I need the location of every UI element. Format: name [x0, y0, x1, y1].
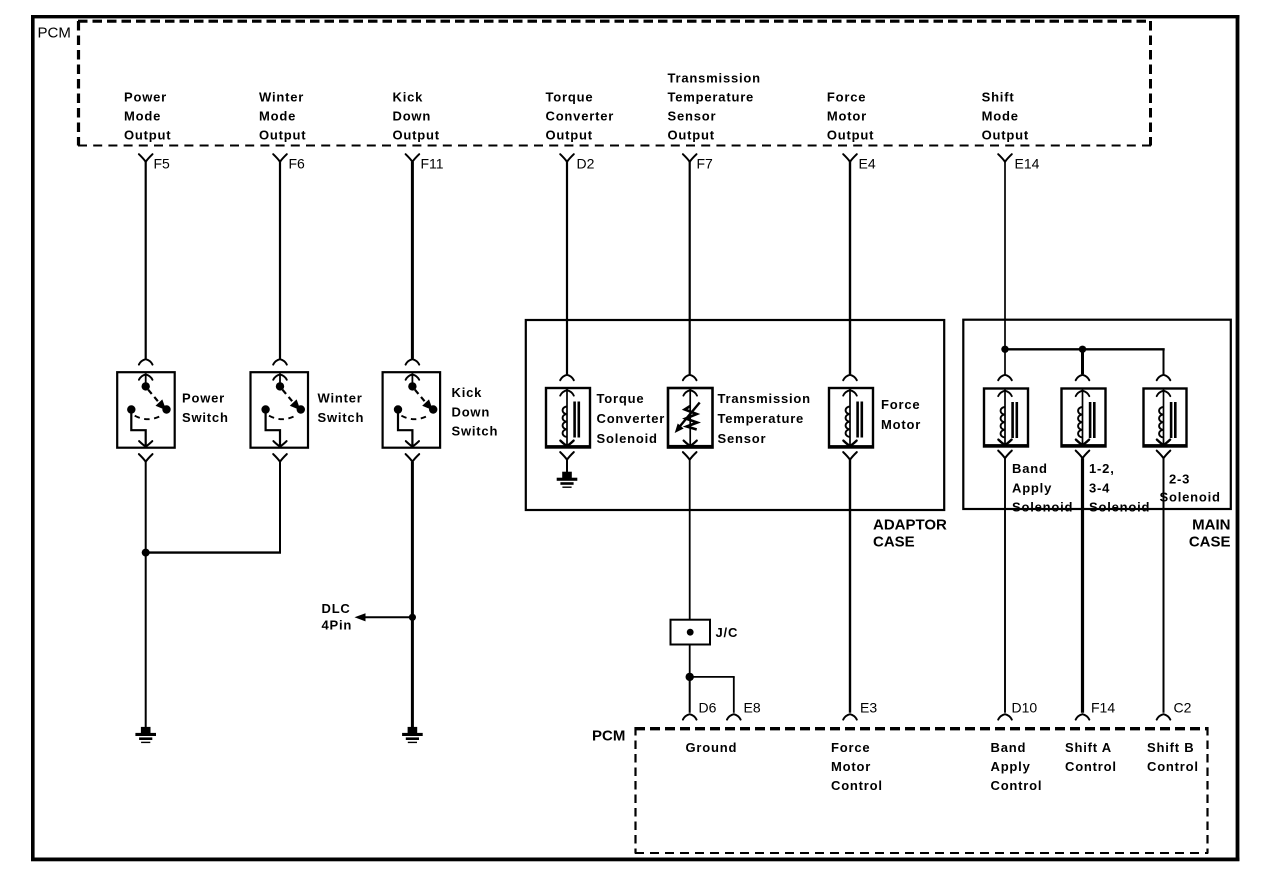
wire Kick Down Switch to ground: [411, 462, 414, 728]
svg-text:Output: Output: [827, 128, 874, 143]
label Band Apply Solenoid: [1012, 461, 1073, 515]
svg-text:4Pin: 4Pin: [322, 618, 353, 633]
pin E4 connector: [843, 154, 876, 171]
svg-text:MAIN: MAIN: [1192, 517, 1230, 534]
wire F11 to Kick Down Switch: [406, 162, 420, 365]
svg-text:Output: Output: [259, 128, 306, 143]
PCM control connector box (dashed, bottom): [635, 727, 1208, 854]
connector below 2-3 Solenoid: [1157, 451, 1171, 459]
svg-text:C2: C2: [1174, 700, 1192, 716]
junction dot DLC tap: [409, 614, 416, 621]
svg-text:E4: E4: [859, 156, 876, 172]
svg-text:Switch: Switch: [318, 410, 365, 425]
junction dot ground splice: [686, 673, 694, 681]
pin F14 label: [1091, 700, 1115, 716]
svg-text:Kick: Kick: [452, 385, 483, 400]
svg-text:ADAPTOR: ADAPTOR: [873, 517, 947, 534]
svg-text:Shift A: Shift A: [1065, 740, 1112, 755]
svg-text:E3: E3: [860, 700, 877, 716]
svg-text:Sensor: Sensor: [668, 109, 717, 124]
svg-text:Control: Control: [1147, 759, 1199, 774]
label J/C: [716, 625, 739, 640]
wire F5 to Power Switch: [139, 162, 153, 365]
wire splice to pin D6: [683, 677, 697, 720]
svg-text:Output: Output: [668, 128, 715, 143]
pin F5 connector: [139, 154, 170, 171]
solenoid: Torque Converter Solenoid: [546, 388, 591, 449]
svg-text:Winter: Winter: [259, 90, 304, 105]
svg-text:Output: Output: [982, 128, 1029, 143]
svg-text:Force: Force: [827, 90, 866, 105]
DLC 4Pin arrow: [355, 613, 413, 621]
pin E8 label: [744, 700, 761, 716]
connector below Kick Down Switch: [406, 454, 420, 462]
svg-text:DLC: DLC: [322, 601, 351, 616]
main case bus wire from E14: [1004, 349, 1165, 374]
wire Torque Converter Solenoid to case ground: [566, 460, 568, 472]
pin D6 label: [699, 700, 717, 716]
svg-text:Motor: Motor: [881, 417, 921, 432]
svg-text:CASE: CASE: [1189, 534, 1231, 551]
switch: Power Switch: [117, 372, 175, 448]
label Winter Switch: [318, 391, 365, 426]
label Shift A Control: [1065, 740, 1117, 774]
svg-text:Winter: Winter: [318, 391, 363, 406]
switch: Winter Switch: [251, 372, 309, 448]
svg-text:Mode: Mode: [124, 109, 161, 124]
svg-text:D6: D6: [699, 700, 717, 716]
svg-text:F5: F5: [154, 156, 171, 172]
svg-text:Transmission: Transmission: [718, 391, 811, 406]
solenoid: Force Motor: [829, 388, 874, 449]
svg-text:Motor: Motor: [827, 109, 867, 124]
wire Winter Switch down: [279, 462, 281, 553]
wire Power Switch to ground: [145, 462, 147, 728]
wire 2-3 Solenoid to pin C2: [1157, 458, 1171, 719]
connector below Winter Switch: [273, 454, 287, 462]
svg-text:Temperature: Temperature: [718, 411, 805, 426]
PCM module label (top left): [38, 25, 71, 42]
svg-text:Solenoid: Solenoid: [1160, 490, 1221, 505]
junction dot bus / band apply: [1001, 346, 1008, 353]
svg-text:Apply: Apply: [1012, 481, 1052, 496]
svg-text:Output: Output: [393, 128, 440, 143]
label Power Switch: [182, 391, 229, 426]
label Kick Down Output: [393, 90, 440, 143]
svg-text:Power: Power: [182, 391, 225, 406]
pin E3 label: [860, 700, 877, 716]
svg-text:Output: Output: [546, 128, 593, 143]
svg-text:F6: F6: [289, 156, 306, 172]
svg-text:Temperature: Temperature: [668, 90, 755, 105]
solenoid: 1-2, 3-4 Solenoid: [1061, 389, 1106, 448]
pin E14 connector: [998, 154, 1039, 171]
connector below Transmission Temperature Sensor: [683, 452, 697, 460]
ADAPTOR CASE box: [526, 320, 944, 510]
ground symbol G1 (power/winter): [135, 727, 156, 743]
svg-text:PCM: PCM: [38, 25, 71, 42]
svg-text:Motor: Motor: [831, 759, 871, 774]
connector below Power Switch: [139, 454, 153, 462]
label 1-2, 3-4 Solenoid: [1089, 461, 1150, 515]
pin F6 connector: [273, 154, 305, 171]
label Shift Mode Output: [982, 90, 1029, 143]
solenoid: Band Apply Solenoid: [984, 389, 1029, 448]
label Ground: [686, 740, 738, 755]
svg-text:F11: F11: [421, 156, 444, 172]
svg-text:2-3: 2-3: [1169, 472, 1190, 487]
label Force Motor Control: [831, 740, 883, 793]
svg-text:PCM: PCM: [592, 728, 625, 745]
label MAIN CASE: [1189, 517, 1231, 551]
svg-text:Mode: Mode: [259, 109, 296, 124]
svg-text:E8: E8: [744, 700, 761, 716]
svg-text:Mode: Mode: [982, 109, 1019, 124]
wire bus to 2-3 Solenoid: [1157, 375, 1171, 380]
svg-text:F7: F7: [697, 156, 714, 172]
label Kick Down Switch: [452, 385, 499, 439]
svg-text:Solenoid: Solenoid: [597, 431, 658, 446]
PCM output connector box (dashed): [78, 21, 1151, 146]
thermistor: Transmission Temperature Sensor: [668, 388, 714, 449]
svg-text:Converter: Converter: [597, 411, 666, 426]
label Transmission Temperature Sensor: [718, 391, 811, 446]
svg-text:D2: D2: [577, 156, 595, 172]
junction connector J/C: [671, 620, 711, 645]
connector below 1-2, 3-4 Solenoid: [1076, 451, 1090, 459]
switch: Kick Down Switch: [383, 372, 441, 448]
svg-text:Band: Band: [1012, 461, 1048, 476]
svg-text:CASE: CASE: [873, 534, 915, 551]
svg-text:Solenoid: Solenoid: [1089, 500, 1150, 515]
wire E4 to Force Motor: [843, 162, 857, 380]
label Transmission Temperature Sensor Output: [668, 71, 761, 143]
label Band Apply Control: [991, 740, 1043, 793]
svg-text:Down: Down: [393, 109, 432, 124]
pin D2 connector: [560, 154, 594, 171]
wire D2 to Torque Converter Solenoid: [560, 162, 574, 380]
svg-text:Sensor: Sensor: [718, 431, 767, 446]
label 2-3 Solenoid: [1160, 472, 1221, 505]
ground symbol G3 (torque converter solenoid): [557, 472, 578, 488]
wire Winter joins Power (horizontal): [145, 551, 281, 553]
wire 1-2, 3-4 Solenoid to pin F14: [1076, 458, 1090, 719]
svg-text:Switch: Switch: [182, 410, 229, 425]
svg-text:Control: Control: [1065, 759, 1117, 774]
wire Force Motor to pin E3: [843, 460, 857, 720]
svg-text:Shift B: Shift B: [1147, 740, 1194, 755]
svg-text:Torque: Torque: [597, 391, 645, 406]
wire bus to 1-2 3-4 Solenoid: [1076, 349, 1090, 380]
connector below Torque Converter Solenoid: [560, 452, 574, 460]
svg-text:Converter: Converter: [546, 109, 615, 124]
ground symbol G2 (kick down): [402, 727, 423, 743]
label Power Mode Output: [124, 90, 171, 143]
label ADAPTOR CASE: [873, 517, 947, 551]
PCM module label (bottom): [592, 728, 625, 745]
svg-text:Ground: Ground: [686, 740, 738, 755]
svg-text:Torque: Torque: [546, 90, 594, 105]
junction dot Power/Winter: [142, 549, 150, 557]
label Torque Converter Output: [546, 90, 615, 143]
svg-text:Control: Control: [831, 778, 883, 793]
pin D10 label: [1012, 700, 1038, 716]
svg-text:J/C: J/C: [716, 625, 739, 640]
svg-text:Output: Output: [124, 128, 171, 143]
svg-text:Switch: Switch: [452, 424, 499, 439]
svg-text:Kick: Kick: [393, 90, 424, 105]
label Force Motor: [881, 397, 921, 432]
label Torque Converter Solenoid: [597, 391, 666, 446]
solenoid: 2-3 Solenoid: [1143, 389, 1187, 448]
svg-text:Transmission: Transmission: [668, 71, 761, 86]
svg-text:Band: Band: [991, 740, 1027, 755]
svg-text:Force: Force: [881, 397, 920, 412]
connector below Force Motor: [843, 452, 857, 460]
wire J/C to ground splice: [689, 645, 691, 678]
svg-text:F14: F14: [1091, 700, 1115, 716]
pin C2 label: [1174, 700, 1192, 716]
wire splice to pin E8: [690, 677, 741, 720]
svg-text:Solenoid: Solenoid: [1012, 500, 1073, 515]
svg-text:Force: Force: [831, 740, 870, 755]
svg-text:D10: D10: [1012, 700, 1038, 716]
wire bus to Band Apply Solenoid: [998, 349, 1012, 380]
svg-text:3-4: 3-4: [1089, 481, 1110, 496]
pin F7 connector: [683, 154, 713, 171]
svg-text:Down: Down: [452, 405, 491, 420]
MAIN CASE box: [963, 320, 1231, 509]
label DLC 4Pin: [322, 601, 353, 633]
wire F7 to Transmission Temperature Sensor: [683, 162, 697, 380]
wire Band Apply Solenoid to pin D10: [998, 458, 1012, 719]
wire Transmission Temperature Sensor to J/C: [689, 460, 691, 620]
svg-text:Power: Power: [124, 90, 167, 105]
svg-text:Apply: Apply: [991, 759, 1031, 774]
label Winter Mode Output: [259, 90, 306, 143]
svg-text:Control: Control: [991, 778, 1043, 793]
label Force Motor Output: [827, 90, 874, 143]
connector below Band Apply Solenoid: [998, 451, 1012, 459]
wire F6 to Winter Switch: [273, 162, 287, 365]
pin F11 connector: [406, 154, 444, 171]
label Shift B Control: [1147, 740, 1199, 774]
svg-text:Shift: Shift: [982, 90, 1015, 105]
svg-text:1-2,: 1-2,: [1089, 461, 1115, 476]
wire E14 to main case bus: [1004, 162, 1006, 349]
junction dot bus / 1-2 3-4 solenoid: [1079, 346, 1086, 353]
svg-text:E14: E14: [1015, 156, 1040, 172]
